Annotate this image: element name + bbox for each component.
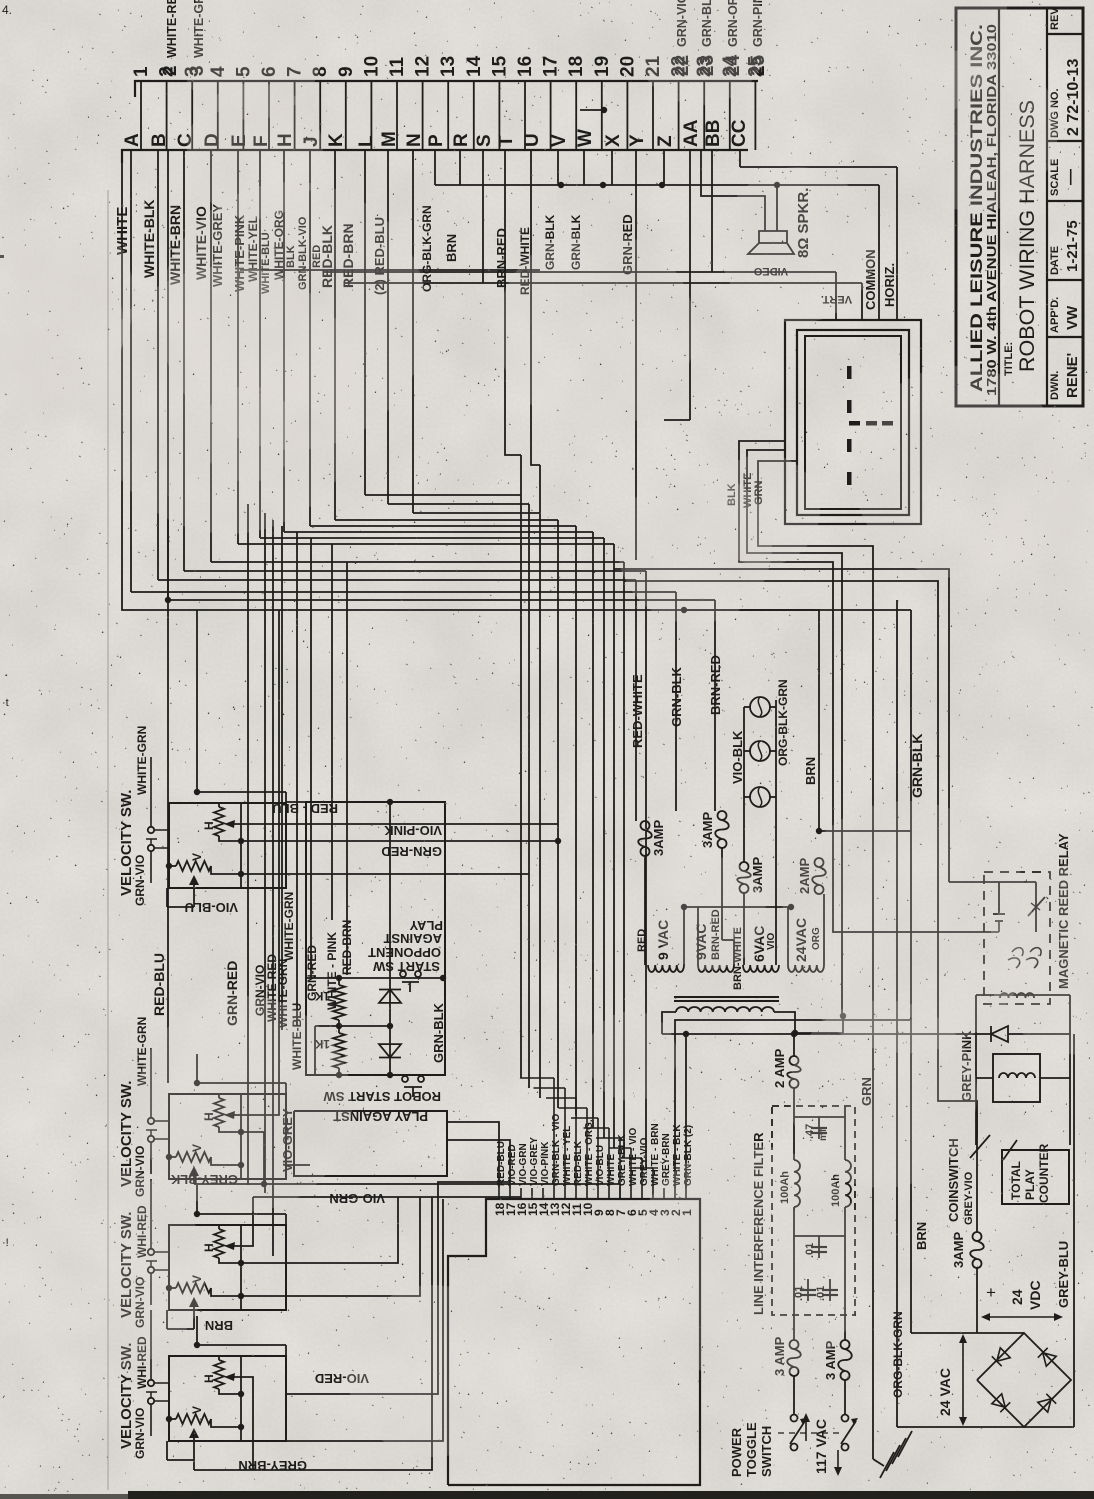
svg-text:VDC: VDC bbox=[1027, 1280, 1043, 1310]
svg-text:AGAINST: AGAINST bbox=[383, 931, 442, 946]
svg-text:11: 11 bbox=[387, 56, 408, 77]
svg-text:VIO-GRN: VIO-GRN bbox=[329, 1191, 385, 1206]
svg-text:3AMP: 3AMP bbox=[651, 820, 666, 856]
svg-text:VIO-BLU: VIO-BLU bbox=[595, 1145, 606, 1186]
svg-text:DWN.: DWN. bbox=[1049, 371, 1061, 400]
svg-text:GREY-BLU: GREY-BLU bbox=[1056, 1241, 1071, 1308]
svg-text:APP'D.: APP'D. bbox=[1049, 297, 1061, 333]
svg-text:L: L bbox=[356, 135, 377, 147]
svg-text:PLAY: PLAY bbox=[409, 918, 443, 933]
svg-text:24: 24 bbox=[1009, 1289, 1025, 1305]
svg-text:ORG-BLK-GRN: ORG-BLK-GRN bbox=[420, 205, 434, 292]
svg-text:9: 9 bbox=[336, 66, 357, 77]
svg-text:GRN-BLK: GRN-BLK bbox=[669, 666, 684, 727]
svg-text:WHITE - VIO: WHITE - VIO bbox=[628, 1127, 639, 1186]
svg-text:20: 20 bbox=[617, 56, 638, 77]
svg-text:BRN: BRN bbox=[205, 1318, 233, 1333]
svg-text:PLAY: PLAY bbox=[1023, 1169, 1037, 1200]
svg-text:BRN: BRN bbox=[914, 1222, 929, 1250]
svg-text:WHITE-GRN: WHITE-GRN bbox=[282, 892, 296, 961]
svg-text:M: M bbox=[379, 131, 400, 147]
svg-text:+: + bbox=[986, 1283, 996, 1302]
svg-text:4.: 4. bbox=[2, 3, 12, 17]
svg-text:13: 13 bbox=[438, 56, 459, 77]
svg-text:WHITE - PINK: WHITE - PINK bbox=[325, 932, 339, 1010]
svg-text:12: 12 bbox=[413, 56, 434, 77]
svg-text:—: — bbox=[1062, 169, 1079, 185]
svg-text:GRN-BLK: GRN-BLK bbox=[909, 733, 925, 798]
svg-text:RED-BLU: RED-BLU bbox=[496, 1141, 507, 1186]
svg-text:VIO-BLU: VIO-BLU bbox=[185, 900, 238, 915]
svg-text:2 72-10-13: 2 72-10-13 bbox=[1065, 59, 1082, 136]
svg-text:H: H bbox=[202, 1374, 216, 1383]
svg-text:VIO-PINK: VIO-PINK bbox=[540, 1141, 551, 1186]
svg-text:ORG-BLK-GRN: ORG-BLK-GRN bbox=[891, 1311, 905, 1398]
svg-text:TITLE:: TITLE: bbox=[1003, 342, 1015, 376]
svg-text:AA: AA bbox=[681, 119, 702, 147]
svg-text:RED-WHITE: RED-WHITE bbox=[630, 674, 645, 748]
svg-text:RENE': RENE' bbox=[1064, 353, 1081, 398]
svg-text:2: 2 bbox=[160, 65, 181, 76]
svg-text:BRN: BRN bbox=[444, 234, 459, 262]
svg-text:V: V bbox=[190, 853, 204, 861]
svg-text:117 VAC: 117 VAC bbox=[813, 1419, 829, 1474]
svg-text:H: H bbox=[202, 821, 216, 830]
svg-text:GREY-VIO: GREY-VIO bbox=[639, 1137, 650, 1186]
svg-text:VELOCITY SW.: VELOCITY SW. bbox=[118, 790, 135, 896]
svg-text:K: K bbox=[326, 133, 347, 147]
svg-text:BRN: BRN bbox=[803, 757, 818, 785]
svg-text:X: X bbox=[603, 134, 624, 147]
svg-text:VIO-GRN: VIO-GRN bbox=[518, 1143, 529, 1186]
svg-text:V: V bbox=[190, 1406, 204, 1414]
svg-text:15: 15 bbox=[489, 55, 510, 77]
svg-text:2 AMP: 2 AMP bbox=[772, 1048, 787, 1088]
svg-text:N: N bbox=[404, 133, 425, 147]
svg-text:Y: Y bbox=[627, 134, 648, 147]
svg-text:B: B bbox=[149, 133, 170, 147]
svg-text:GRN-VIO: GRN-VIO bbox=[133, 1408, 147, 1459]
svg-text:18: 18 bbox=[566, 56, 587, 77]
svg-text:VW: VW bbox=[1064, 305, 1081, 330]
svg-text:19: 19 bbox=[592, 56, 613, 77]
svg-text:Z: Z bbox=[655, 135, 676, 147]
svg-text:VIO-RED: VIO-RED bbox=[507, 1144, 518, 1186]
svg-text:1-21-75: 1-21-75 bbox=[1064, 220, 1081, 272]
svg-text:VIO-PINK: VIO-PINK bbox=[384, 823, 442, 838]
svg-text:R: R bbox=[451, 133, 472, 147]
svg-text:16: 16 bbox=[515, 56, 536, 77]
svg-text:COUNTER: COUNTER bbox=[1037, 1143, 1051, 1203]
svg-text:BB: BB bbox=[703, 120, 724, 147]
svg-text:GREY-VIO: GREY-VIO bbox=[963, 1171, 975, 1225]
svg-text:·!: ·! bbox=[2, 1237, 9, 1249]
svg-text:A: A bbox=[122, 133, 143, 147]
svg-text:T: T bbox=[496, 135, 517, 147]
svg-text:POWER: POWER bbox=[729, 1427, 744, 1477]
svg-text:RED-BLU: RED-BLU bbox=[151, 953, 167, 1016]
svg-text:GREY-BLK: GREY-BLK bbox=[617, 1134, 628, 1186]
svg-text:14: 14 bbox=[464, 55, 485, 77]
svg-text:3AMP: 3AMP bbox=[700, 812, 715, 848]
svg-text:W: W bbox=[575, 129, 596, 147]
svg-text:S: S bbox=[474, 134, 495, 147]
svg-text:RED-BRN: RED-BRN bbox=[340, 920, 354, 975]
svg-text:WHITE-BLK: WHITE-BLK bbox=[141, 199, 157, 278]
svg-text:SCALE: SCALE bbox=[1049, 159, 1061, 196]
svg-text:·t: ·t bbox=[2, 697, 9, 709]
svg-text:REV: REV bbox=[1049, 7, 1061, 30]
svg-text:BRN-RED: BRN-RED bbox=[494, 228, 509, 288]
svg-text:24 VAC: 24 VAC bbox=[937, 1368, 953, 1416]
svg-text:WHITE - YEL: WHITE - YEL bbox=[562, 1126, 573, 1186]
svg-text:17: 17 bbox=[541, 56, 562, 77]
svg-text:CC: CC bbox=[729, 119, 750, 147]
svg-text:SWITCH: SWITCH bbox=[759, 1426, 774, 1477]
svg-text:WHITE-GRN: WHITE-GRN bbox=[135, 726, 149, 795]
svg-text:GRN-BLK: GRN-BLK bbox=[431, 1002, 446, 1063]
svg-text:WHITE - ORG.: WHITE - ORG. bbox=[584, 1119, 595, 1186]
svg-text:VIO: VIO bbox=[766, 933, 777, 950]
svg-text:P: P bbox=[426, 134, 447, 147]
svg-text:V: V bbox=[549, 134, 570, 147]
svg-text:WHITE: WHITE bbox=[606, 1153, 617, 1186]
svg-text:TOGGLE: TOGGLE bbox=[744, 1422, 759, 1477]
svg-text:OPPONENT: OPPONENT bbox=[368, 945, 441, 960]
svg-text:WHITE-RED: WHITE-RED bbox=[165, 0, 179, 58]
svg-text:GRN-VIO: GRN-VIO bbox=[133, 855, 147, 906]
svg-text:WHITE - BRN: WHITE - BRN bbox=[650, 1123, 661, 1186]
svg-text:VIO-BLK: VIO-BLK bbox=[730, 730, 745, 784]
svg-text:RED: RED bbox=[636, 929, 648, 952]
svg-text:RED-BLK: RED-BLK bbox=[573, 1140, 584, 1186]
svg-text:VIO-GREY: VIO-GREY bbox=[529, 1137, 540, 1186]
svg-text:1: 1 bbox=[131, 66, 152, 77]
svg-text:GRN-BLK - VIO: GRN-BLK - VIO bbox=[551, 1114, 562, 1186]
svg-text:VELOCITY SW.: VELOCITY SW. bbox=[118, 1081, 135, 1187]
svg-text:10: 10 bbox=[361, 56, 382, 77]
svg-text:DATE: DATE bbox=[1049, 246, 1061, 275]
svg-text:TOTAL: TOTAL bbox=[1009, 1161, 1023, 1200]
svg-text:ORG-BLK-GRN: ORG-BLK-GRN bbox=[776, 679, 790, 766]
svg-text:U: U bbox=[522, 133, 543, 147]
